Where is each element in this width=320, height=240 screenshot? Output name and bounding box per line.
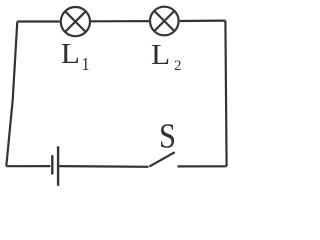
svg-text:1: 1 xyxy=(82,54,90,74)
svg-text:L: L xyxy=(61,37,80,70)
svg-text:2: 2 xyxy=(174,58,182,74)
svg-text:S: S xyxy=(159,117,176,155)
svg-text:L: L xyxy=(151,38,170,71)
